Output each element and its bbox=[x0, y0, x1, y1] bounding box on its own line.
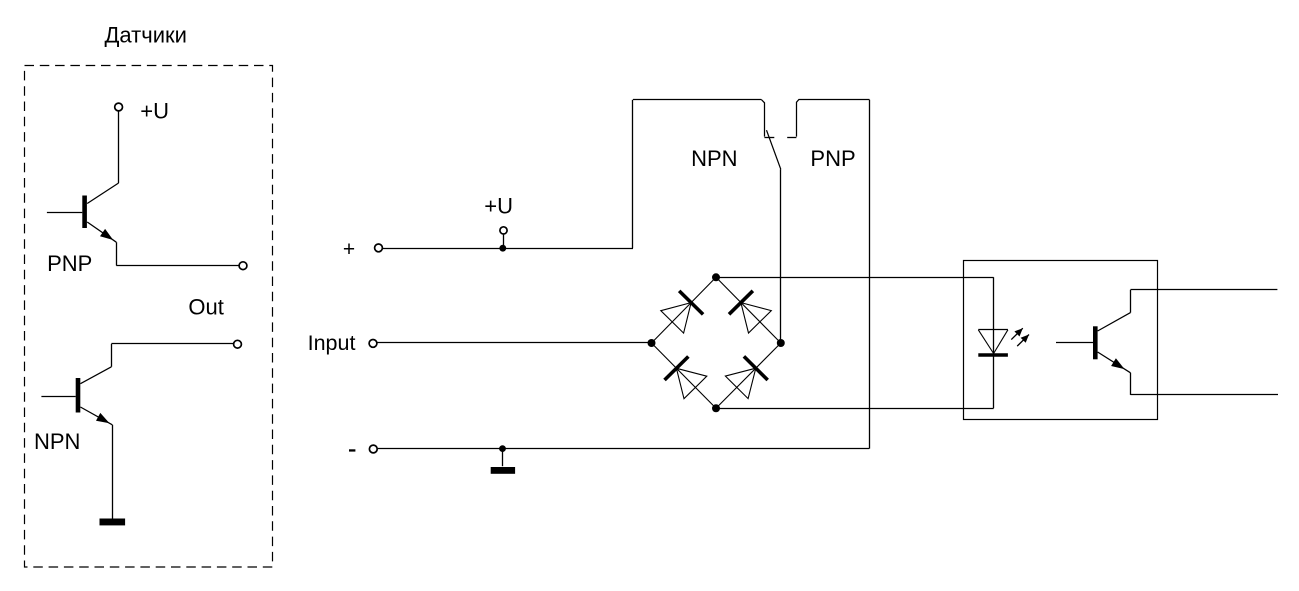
svg-text:+: + bbox=[343, 238, 355, 261]
svg-text:PNP: PNP bbox=[47, 251, 92, 276]
svg-text:PNP: PNP bbox=[810, 146, 855, 171]
svg-text:+U: +U bbox=[484, 194, 513, 219]
svg-text:Датчики: Датчики bbox=[105, 22, 187, 47]
svg-text:Input: Input bbox=[308, 331, 356, 355]
svg-text:+U: +U bbox=[140, 99, 169, 124]
svg-text:Out: Out bbox=[188, 294, 223, 319]
svg-text:NPN: NPN bbox=[691, 146, 737, 171]
svg-text:NPN: NPN bbox=[34, 429, 80, 454]
